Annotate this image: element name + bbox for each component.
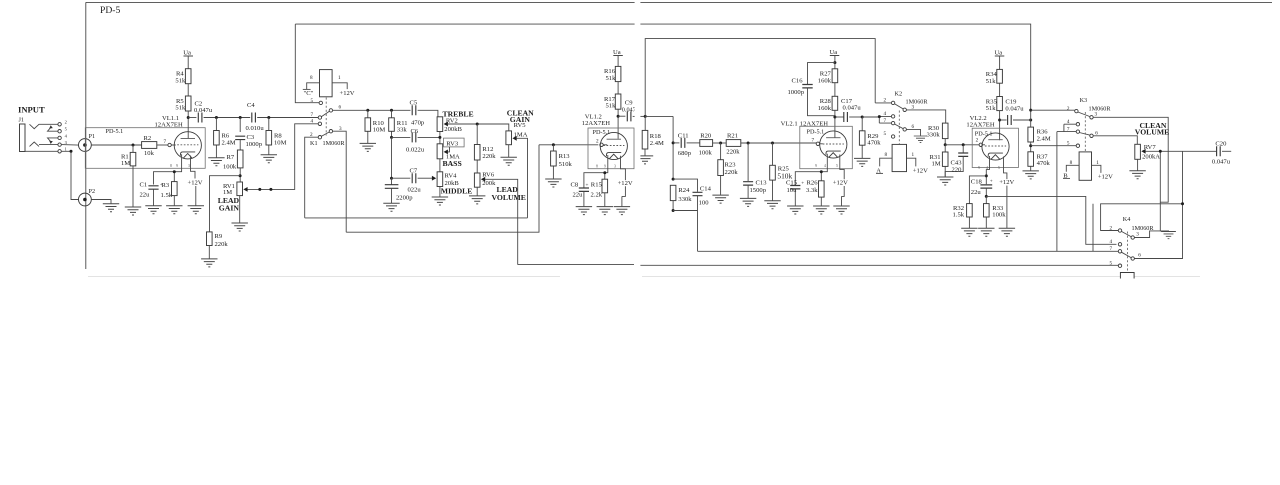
node C9 out: [644, 115, 647, 118]
relay K2 coil: [885, 144, 915, 171]
svg-text:5: 5: [1067, 140, 1070, 146]
svg-text:INPUT: INPUT: [18, 105, 45, 115]
junction sleeve: [70, 150, 73, 153]
relay K4 coil top cut: [1120, 273, 1134, 279]
K4 contact 2 common: [1110, 225, 1122, 232]
svg-text:200kA: 200kA: [1142, 153, 1160, 160]
resistor R9 220k: [207, 232, 229, 248]
net label A: [876, 167, 883, 174]
svg-text:0.047u: 0.047u: [194, 107, 213, 114]
ground heater stage1: [188, 206, 204, 214]
wire top clean bus page1 to K3: [295, 24, 1030, 110]
relay K2 linkage dashed: [898, 111, 900, 145]
wire node to K4 pin2: [1101, 204, 1183, 231]
capacitor C5 470p: [410, 100, 425, 127]
resistor R6 2.4M: [214, 118, 236, 158]
svg-text:R15: R15: [591, 181, 603, 188]
svg-text:C3: C3: [247, 134, 255, 141]
svg-text:1000p: 1000p: [246, 141, 263, 148]
ground R33: [978, 228, 994, 236]
svg-text:220: 220: [952, 166, 963, 173]
K2 contact 5: [884, 131, 895, 138]
svg-text:C4: C4: [247, 102, 255, 109]
wire P1 to R2: [91, 144, 141, 146]
svg-text:3.3k: 3.3k: [806, 187, 818, 194]
svg-text:2: 2: [65, 120, 67, 125]
wire R27-R28: [834, 83, 836, 97]
svg-text:0.022u: 0.022u: [406, 147, 425, 154]
svg-text:BASS: BASS: [443, 159, 462, 168]
svg-text:+12V: +12V: [188, 180, 203, 187]
svg-text:10M: 10M: [274, 139, 287, 146]
svg-text:3: 3: [188, 164, 190, 168]
K2 contact 6: [903, 124, 915, 131]
K4 contact 5: [1110, 260, 1122, 267]
resistor R34 51k: [986, 69, 1003, 85]
svg-text:470k: 470k: [1037, 160, 1051, 167]
ground K4 pin3: [1161, 232, 1176, 239]
wire R21 to VL2.1 grid: [741, 142, 816, 144]
node R30 bottom grid: [944, 143, 947, 146]
capacitor C16 1000p feedback: [788, 63, 835, 116]
wire K1 pin1 to +12V: [332, 83, 347, 89]
node R24 top: [672, 178, 675, 181]
resistor R3 1.5k: [161, 182, 178, 206]
svg-text:PD-5.1: PD-5.1: [593, 129, 611, 136]
svg-text:6: 6: [339, 105, 342, 111]
svg-text:3: 3: [614, 165, 616, 169]
resistor R13 510k: [551, 145, 573, 179]
svg-text:2: 2: [976, 137, 979, 143]
wire grid into tube: [171, 144, 176, 146]
wire plate node: [187, 111, 189, 138]
svg-text:+12V: +12V: [999, 179, 1014, 186]
node plate VL1.2: [617, 115, 620, 118]
K3 contact 4: [1067, 119, 1080, 126]
svg-text:4: 4: [824, 164, 826, 168]
svg-text:8: 8: [310, 75, 313, 81]
svg-text:0.010u: 0.010u: [246, 125, 265, 132]
tube name VL2.2: [966, 115, 994, 128]
svg-text:0.047u: 0.047u: [1212, 158, 1231, 165]
cathode wire VL2.1: [795, 154, 827, 185]
svg-text:5: 5: [998, 166, 1000, 170]
svg-text:3: 3: [1095, 112, 1098, 118]
capacitor C15 10u: [786, 179, 804, 205]
wire lead return bus: [346, 145, 539, 232]
module box PD-5.1 stage 4: [972, 128, 1018, 167]
svg-text:R7: R7: [227, 154, 235, 161]
relay K1 coil: [310, 70, 341, 97]
svg-text:R13: R13: [559, 153, 571, 160]
svg-text:+: +: [801, 180, 804, 186]
svg-text:100k: 100k: [699, 149, 713, 156]
ground R29: [854, 158, 870, 166]
svg-text:0.047u: 0.047u: [1005, 105, 1024, 112]
resistor R36 2.4M: [1028, 127, 1051, 152]
node 2200p top: [390, 177, 393, 180]
J1 tip switch arrow: [48, 125, 58, 131]
bottom page edge artifact: [88, 276, 1200, 278]
grid entry circle VL2.2: [979, 143, 982, 146]
node R6 top: [215, 116, 218, 119]
wire main line C2 to C4: [204, 117, 251, 119]
relay K1 linkage dashed: [325, 98, 327, 136]
svg-text:P1: P1: [89, 133, 96, 140]
ground R6: [208, 158, 224, 166]
triode VL2.1: [815, 131, 847, 168]
K1 contact 6: [329, 105, 341, 112]
ground heater stage4: [999, 228, 1015, 236]
wire R34-R35: [999, 83, 1001, 96]
svg-text:7: 7: [812, 137, 815, 143]
wire plate node VL2.2: [999, 111, 1001, 141]
svg-text:R3: R3: [162, 182, 170, 189]
heater +12V stage2: [618, 156, 633, 207]
capacitor C19 0.047u: [1000, 98, 1031, 125]
capacitor C13 1500p: [743, 143, 767, 198]
capacitor C2 0.047u: [188, 100, 216, 122]
K4 contact 6: [1131, 253, 1141, 260]
svg-text:RV5: RV5: [514, 122, 527, 129]
label K1: [310, 140, 345, 147]
node R10 top: [366, 109, 369, 112]
node K3 pin2 tap: [1029, 109, 1032, 112]
svg-text:C14: C14: [700, 186, 712, 193]
pad P2: [79, 188, 96, 206]
potentiometer RV2 200kB TREBLE: [437, 109, 474, 133]
tube name VL1.1: [155, 115, 183, 128]
wire top bus to K1 pin5: [295, 24, 319, 103]
svg-text:5: 5: [311, 98, 314, 104]
ground R18: [637, 156, 653, 164]
svg-text:51k: 51k: [986, 78, 997, 85]
frame border top line: [86, 1, 1272, 3]
ground R15: [597, 207, 613, 215]
svg-text:J1: J1: [19, 117, 25, 124]
K4 blade 2-3: [1121, 231, 1131, 236]
node R12 top: [476, 123, 479, 126]
wire C9 node up to stage3 bypass: [645, 39, 875, 117]
resistor R33 100k: [984, 196, 1007, 228]
svg-text:220k: 220k: [725, 169, 739, 176]
svg-text:C13: C13: [756, 179, 768, 186]
resistor R1 1M: [121, 145, 136, 207]
wire K1 pin6 to tone stack: [333, 109, 411, 111]
K2 blade 2-3: [895, 104, 904, 109]
node C19 out: [1029, 119, 1032, 122]
wire K2 pin1 to +12V: [907, 158, 916, 166]
module box PD-5.1 stage 1: [85, 128, 205, 169]
K2 contact 2 common: [884, 98, 895, 105]
node cathode VL1.2: [603, 171, 606, 174]
capacitor C3 1000p: [235, 118, 262, 149]
resistor R7 100k: [223, 150, 243, 171]
cathode wire VL1.1: [154, 154, 182, 184]
resistor R2 10k: [142, 135, 157, 157]
J1 ring switch arrow: [48, 138, 58, 144]
svg-text:P2: P2: [89, 188, 96, 195]
K1 blade 2-3: [321, 132, 329, 137]
wire R7 to RV1: [239, 168, 241, 182]
svg-text:22u: 22u: [573, 192, 584, 199]
K3 blade 7-6: [1079, 133, 1089, 136]
wire RV7 to ground: [1137, 159, 1139, 170]
node cathode VL2.1: [820, 170, 823, 173]
svg-text:R20: R20: [700, 132, 712, 139]
wire RV2 bottom node: [439, 132, 441, 144]
potentiometer RV5 1MA CLEAN GAIN: [506, 108, 534, 144]
ground R32: [961, 228, 977, 236]
module box PD-5.1 stage 3: [800, 126, 853, 168]
svg-text:100k: 100k: [992, 212, 1006, 219]
module box PD-5.1 stage 2: [588, 128, 634, 169]
wire R24-C14 top link: [673, 179, 697, 192]
potentiometer RV7 200kA: [1135, 144, 1160, 160]
K4 blade 7-6: [1121, 252, 1131, 257]
relay K2 label: [895, 90, 929, 105]
wire C5 to RV2: [418, 110, 438, 117]
svg-text:C19: C19: [1005, 98, 1017, 105]
svg-text:4: 4: [1110, 239, 1113, 245]
wire RV6 wiper to output bus: [485, 179, 518, 264]
svg-text:2: 2: [884, 98, 887, 104]
svg-text:"C": "C": [304, 90, 314, 97]
ground R3: [166, 206, 182, 214]
power Ua stage3: [830, 49, 840, 63]
wire C4 to K1 pin7: [257, 117, 318, 119]
resistor R12 220k: [474, 124, 496, 173]
wire K2 pin8 to net A: [880, 158, 892, 166]
svg-text:1MA: 1MA: [514, 131, 528, 138]
svg-text:K2: K2: [895, 90, 903, 97]
resistor R20 100k: [699, 132, 713, 156]
svg-text:Ua: Ua: [995, 50, 1003, 57]
svg-text:9: 9: [604, 165, 606, 169]
K2 contact 3: [903, 104, 915, 111]
wire P2 to ground: [91, 200, 111, 204]
svg-text:10M: 10M: [373, 126, 386, 133]
svg-text:C15: C15: [786, 179, 798, 186]
grid entry circle VL2.1: [816, 142, 819, 145]
resistor R32 1.5k: [953, 204, 973, 228]
wire C17 to K2: [862, 116, 879, 118]
heater +12V stage1: [188, 156, 203, 206]
K1 blade 7-6: [321, 111, 329, 117]
svg-text:12AX7EH: 12AX7EH: [966, 122, 994, 129]
resistor R23 220k: [718, 143, 739, 195]
heater +12V stage4: [999, 157, 1014, 229]
ground C8: [576, 207, 592, 215]
node C18 bottom: [985, 195, 988, 198]
svg-text:200kB: 200kB: [444, 126, 462, 133]
svg-text:200k: 200k: [482, 180, 496, 187]
wire C9 node right: [645, 115, 673, 117]
svg-text:1M060R: 1M060R: [1089, 106, 1112, 113]
K4 contact 7 common: [1110, 246, 1122, 253]
wire R24 bus to K4 pin7: [698, 250, 1119, 252]
svg-text:680p: 680p: [678, 150, 692, 157]
wire C9 branch down to C11 line: [672, 116, 674, 179]
svg-text:+: +: [586, 183, 589, 189]
svg-text:330k: 330k: [927, 132, 941, 139]
node R36-R37: [1029, 144, 1032, 147]
wire R2 to grid: [157, 144, 168, 146]
svg-text:1: 1: [338, 75, 341, 81]
wire junction to R9: [210, 176, 241, 232]
svg-text:7: 7: [311, 112, 314, 118]
bus lead volume to K4 pin5: [518, 264, 1119, 267]
svg-text:3: 3: [912, 104, 915, 110]
resistor R26 3.3k: [806, 179, 824, 205]
node C11 line tap: [672, 141, 675, 144]
node junction at R1 top: [132, 144, 135, 147]
relay K3 label: [1080, 97, 1112, 113]
svg-text:C7: C7: [410, 168, 418, 175]
ground K2 pin6: [914, 136, 927, 143]
svg-text:51k: 51k: [606, 103, 617, 110]
svg-text:Ua: Ua: [830, 49, 838, 56]
wire R4-R5: [187, 84, 189, 96]
ground R26: [813, 206, 829, 214]
capacitor C1 22u: [140, 182, 163, 206]
svg-text:1M060R: 1M060R: [906, 99, 929, 106]
wire K3 pin7 down to K4 pin7: [1056, 132, 1058, 252]
J1 terminal circles: [58, 123, 61, 153]
svg-text:6: 6: [1138, 253, 1141, 259]
capacitor C9 0.047u: [618, 100, 645, 122]
svg-text:7: 7: [1110, 246, 1113, 252]
K2 contact 7 common: [884, 118, 895, 125]
resistor R17 51k: [604, 94, 621, 110]
svg-text:1M060R: 1M060R: [323, 140, 346, 147]
svg-text:RV3: RV3: [446, 140, 459, 147]
svg-text:K1: K1: [310, 140, 318, 147]
wire J1 tip to P1: [61, 144, 78, 147]
svg-text:2.4M: 2.4M: [222, 139, 236, 146]
triode VL1.1: [170, 132, 201, 168]
capacitor C4 0.010u: [246, 102, 265, 132]
node Ua stage3: [833, 61, 836, 64]
svg-text:+12V: +12V: [913, 167, 928, 174]
K3 contact 7 common: [1067, 126, 1080, 133]
connector J1 jack body: [20, 124, 58, 152]
resistor R28 160k: [818, 96, 838, 112]
potentiometer RV4 20kB MIDDLE: [432, 172, 473, 196]
svg-text:2.4M: 2.4M: [650, 140, 664, 147]
wire R24 C14 bottom to bus: [673, 211, 697, 252]
svg-text:PD-5.1: PD-5.1: [106, 128, 124, 135]
wire to VL1.2 grid: [539, 144, 598, 146]
triode VL1.2: [596, 132, 627, 168]
wire K3 pin8 to net B: [1066, 165, 1079, 171]
svg-text:4: 4: [884, 111, 887, 117]
page gutter between scanned pages: [635, 0, 641, 292]
capacitor C6 0.022u: [392, 128, 440, 153]
svg-text:7: 7: [1067, 126, 1070, 132]
K1 contact 3: [329, 126, 342, 133]
wire RV7 wiper to output node: [1145, 150, 1216, 152]
resistor R18 2.4M: [642, 116, 664, 155]
node R23 top: [719, 142, 722, 145]
svg-text:C5: C5: [410, 100, 418, 107]
wire K2 pin6 to ground: [906, 129, 920, 135]
K3 contact 5: [1067, 140, 1080, 147]
resistor R16 51k: [604, 66, 621, 82]
svg-text:7: 7: [884, 118, 887, 124]
svg-text:+12V: +12V: [833, 180, 848, 187]
relay K4 label: [1123, 216, 1155, 232]
capacitor C11 680p: [673, 132, 700, 157]
relay K3 linkage dashed: [1084, 112, 1086, 152]
svg-text:220k: 220k: [726, 149, 740, 156]
ground R9: [201, 259, 217, 267]
svg-text:1: 1: [912, 152, 915, 158]
svg-text:C8: C8: [571, 181, 579, 188]
wire RV2 wiper to RV5: [448, 124, 509, 131]
relay K4 linkage dashed: [1127, 232, 1129, 273]
node plate VL2.1: [833, 116, 836, 119]
wire K2 pin3 to R30: [906, 110, 945, 123]
wire K4 pin3 to ground: [1134, 231, 1168, 238]
svg-text:12AX7EH: 12AX7EH: [155, 121, 183, 128]
svg-text:MIDDLE: MIDDLE: [441, 186, 473, 195]
svg-text:51k: 51k: [175, 105, 186, 112]
svg-text:2: 2: [1110, 225, 1113, 231]
wire C19 node down to R36: [1030, 110, 1032, 127]
svg-text:33k: 33k: [397, 126, 408, 133]
ground RV6: [469, 196, 485, 204]
svg-text:1.5k: 1.5k: [953, 212, 965, 219]
svg-text:VOLUME: VOLUME: [1135, 128, 1169, 137]
ground C1: [145, 206, 161, 214]
svg-text:100k: 100k: [223, 164, 237, 171]
tube name VL2.1: [781, 121, 829, 128]
K1 contact 2 common: [310, 132, 322, 139]
resistor R37 470k: [1028, 152, 1051, 171]
K3 blade 2-3: [1078, 112, 1090, 117]
ground C15: [787, 206, 803, 214]
resistor R35 51k: [986, 97, 1003, 113]
svg-text:C1: C1: [140, 182, 148, 189]
wire K1 pin8 to net C: [307, 83, 320, 89]
resistor R5 51k: [175, 96, 191, 112]
ground R31: [937, 177, 953, 185]
svg-text:51k: 51k: [175, 77, 186, 84]
power Ua stage2: [613, 49, 623, 66]
capacitor C18 22u: [971, 178, 993, 196]
wire C3 to R7: [239, 140, 241, 150]
wire plate node VL2.1: [834, 110, 836, 137]
svg-text:+12V: +12V: [1098, 173, 1113, 180]
svg-text:1M: 1M: [223, 189, 232, 196]
capacitor C20 0.047u: [1212, 141, 1231, 166]
wire K3 pin2 feed: [1031, 109, 1075, 111]
svg-text:R24: R24: [678, 187, 690, 194]
resistor R31 1M: [930, 145, 949, 177]
svg-text:C9: C9: [625, 100, 633, 107]
net label C: [303, 89, 314, 97]
ground RV7: [1129, 171, 1145, 179]
svg-text:PD-5: PD-5: [100, 5, 120, 16]
svg-text:R2: R2: [144, 135, 152, 142]
svg-text:470p: 470p: [411, 120, 425, 127]
svg-text:C16: C16: [792, 78, 804, 85]
node cathode VL1.1: [173, 170, 176, 173]
resistor R27 160k: [818, 63, 838, 85]
svg-text:5: 5: [836, 164, 838, 168]
K3 contact 6: [1090, 130, 1099, 137]
